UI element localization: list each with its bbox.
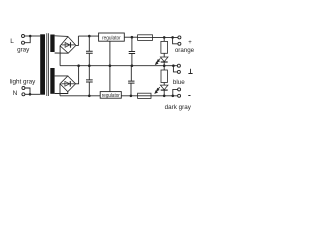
wire secondary2 bottom to bridge B2 AC bottom [55,92,68,94]
terminal - pin 1 upper [178,88,181,91]
svg-text:orange: orange [175,47,195,54]
svg-text:L: L [10,38,14,45]
fuse F2 element line [138,95,151,97]
regulator U1 box [99,33,125,41]
wire secondary2 top to bridge B2 AC apex [55,75,68,77]
wire + junction elbow to pin2 [173,37,178,43]
wire negative rail B2 to regulator U2 [60,95,100,97]
bridge B1 diode lead [62,44,75,46]
capacitor C3 bottom lead [88,82,90,96]
LED D1 anode stub [163,53,165,57]
wire - junction elbow to upper pin [173,89,178,95]
label 0V symbol [188,69,192,74]
terminal N pin 2 [22,93,25,96]
wire 0V mid rail [60,65,177,67]
wire bridge B2 DC+ to 0V rail [76,66,79,84]
capacitor C1 plates [86,51,93,53]
transformer T1 core line 1 [46,33,48,96]
svg-text:blue: blue [173,79,185,86]
fuse F1 body [138,35,153,41]
node mid rail C1-C3 junction [88,64,91,67]
bridge B2 diode cathode bar [69,81,71,87]
node mid rail C2-C4 junction [131,64,134,67]
node N junction [29,93,32,96]
wire secondary1 top to bridge B1 AC apex [55,35,68,38]
transformer T1 primary winding [40,34,45,94]
LED D2 cathode bar [161,89,168,91]
terminal L pin 1 [22,35,25,38]
wire secondary1 bottom to bridge B1 AC bottom [55,52,69,54]
capacitor C3 top lead [88,66,90,80]
LED D1 cathode bar [161,61,168,63]
bridge rectifier B2 body [60,76,76,92]
node top rail C2 junction [131,36,134,39]
node mid rail B2 junction [77,64,80,67]
fuse F1 element line [138,37,153,39]
node output + junction [171,36,174,39]
regulator U2 box [100,92,121,99]
node resistor R2 junction top [163,95,166,98]
terminal L pin 2 [22,41,25,44]
capacitor C4 bottom lead [130,83,132,95]
node resistor R1 junction [163,36,166,39]
regulator U2 ground pin [109,66,111,92]
bridge B2 diode triangle [65,81,70,86]
svg-text:N: N [13,90,18,97]
capacitor C1 bottom lead [88,54,90,66]
LED D1 cathode stub [163,62,165,66]
fuse F2 body [138,93,151,98]
wire N pin2 to junction [25,93,30,95]
LED D1 emission arrow 1 [157,58,160,62]
node mid rail regulator pins junction [109,64,112,67]
svg-text:+: + [188,40,192,46]
wire bridge B1 DC+ to top rail [76,36,79,45]
bridge rectifier B1 body [60,37,76,54]
LED D1 emission arrow 2 [156,61,159,65]
resistor R2 body [161,70,167,83]
svg-text:regulator: regulator [102,35,121,42]
terminal - pin 2 lower [178,94,181,97]
LED D2 emission arrow 2 [155,90,158,94]
capacitor C2 top lead [131,37,133,51]
node L junction [29,35,32,38]
terminal 0V pin 1 [177,64,180,67]
svg-text:light gray: light gray [10,79,36,86]
wire N to transformer primary [30,93,40,95]
wire fuse F1 to output terminal [153,36,178,38]
capacitor C3 plates [86,80,93,82]
LED D2 cathode stub [163,90,165,96]
wire N pin1 elbow to junction [25,88,30,94]
wire L pin1 to junction [25,35,31,37]
resistor R1 top stub [163,37,165,41]
wire bridge B1 DC- to 0V rail [59,46,61,66]
capacitor C4 plates [128,81,134,83]
node negative rail C3 junction [88,95,91,98]
wire top rail B1 to regulator U1 [78,35,98,37]
LED D2 anode stub [163,83,165,86]
bridge B1 diode triangle [65,43,70,48]
capacitor C2 plates [129,52,135,54]
node mid rail output junction [172,64,175,67]
wire 0V junction elbow to pin2 [173,66,177,72]
bridge B2 diode lead [61,83,74,85]
transformer T1 core line 2 [48,33,50,96]
wire fuse F2 to output terminal [151,95,178,97]
terminal + pin 2 [178,42,181,45]
wire bridge B2 DC- to negative rail [59,84,61,96]
terminal 0V pin 2 [177,70,180,73]
wire L pin2 elbow to junction [25,36,31,43]
svg-text:dark gray: dark gray [165,104,192,111]
transformer T1 secondary winding 1 [50,35,54,53]
regulator U1 ground pin [109,41,111,65]
svg-text:regulator: regulator [102,93,120,100]
LED D2 emission arrow 1 [157,87,160,91]
node mid rail LED D1 junction [163,64,166,67]
wire regulator U2 output to fuse F2 [121,95,137,97]
transformer T1 secondary winding 2 [50,68,54,94]
label - [188,95,190,97]
terminal + pin 1 [178,36,181,39]
capacitor C1 top lead [88,36,90,51]
terminal N pin 1 [22,87,25,90]
capacitor C4 top lead [130,66,132,81]
wire L to transformer primary [30,35,40,37]
node negative rail C4 junction [130,95,133,98]
resistor R2 top stub [163,66,165,70]
capacitor C2 bottom lead [131,54,133,66]
LED D2 triangle [160,85,168,90]
resistor R1 body [161,41,168,53]
LED D1 triangle [160,57,168,62]
node output - junction [172,95,175,98]
wire regulator U1 output to fuse F1 [124,36,137,38]
bridge B1 diode cathode bar [70,42,72,48]
node top rail C1 junction [88,35,91,38]
svg-text:gray: gray [17,46,30,53]
